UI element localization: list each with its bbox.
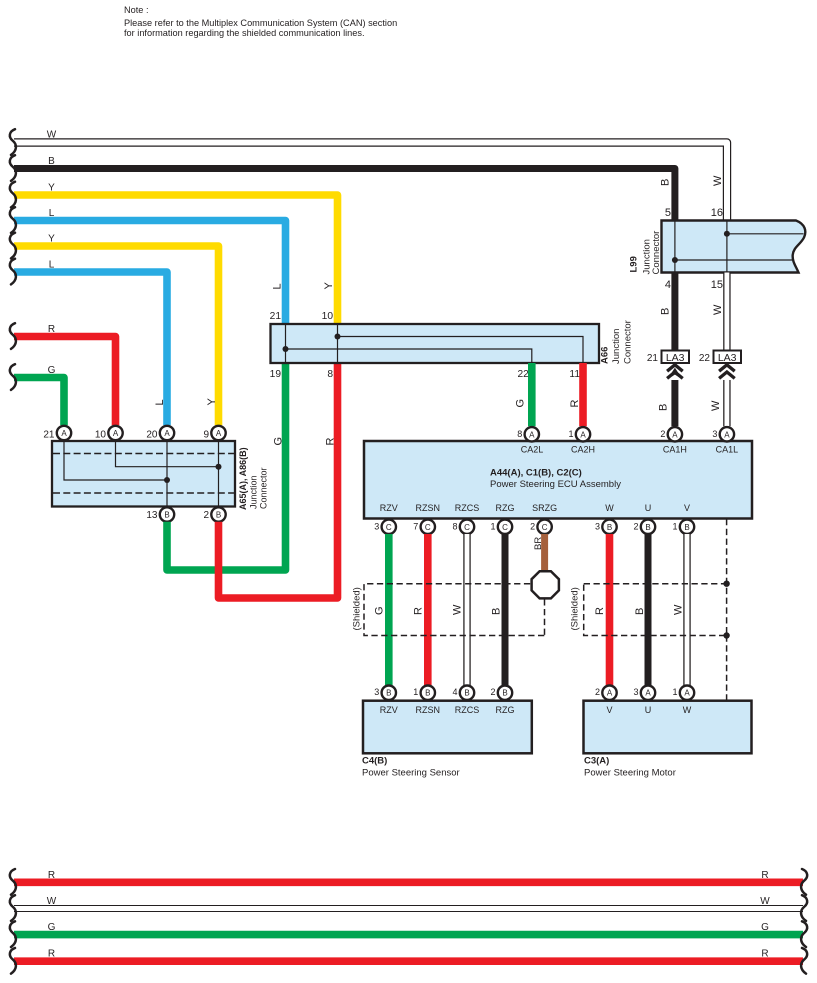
svg-text:L: L (49, 208, 55, 219)
L99 internal line pin5-4 (674, 221, 676, 273)
wire end squiggle B (10, 155, 16, 181)
svg-text:10: 10 (95, 430, 107, 441)
svg-text:3: 3 (374, 521, 379, 531)
svg-text:2: 2 (490, 687, 495, 697)
svg-text:RZV: RZV (380, 705, 398, 715)
A65 junction dot 1 (164, 477, 170, 483)
svg-text:Note :: Note : (124, 5, 149, 15)
bottom wire R 2 (14, 957, 803, 965)
svg-text:B: B (216, 511, 221, 520)
svg-text:3: 3 (374, 687, 379, 697)
svg-text:G: G (515, 399, 527, 408)
svg-text:2: 2 (203, 510, 209, 521)
svg-text:R: R (761, 870, 768, 881)
svg-text:C: C (464, 523, 470, 532)
svg-text:4: 4 (452, 687, 457, 697)
svg-text:CA2H: CA2H (571, 445, 595, 455)
svg-text:(Shielded): (Shielded) (570, 587, 581, 630)
bottom wire R2 squiggle left (10, 948, 16, 974)
svg-text:20: 20 (146, 430, 158, 441)
svg-text:15: 15 (711, 279, 723, 291)
svg-text:LA3: LA3 (666, 352, 685, 364)
svg-text:3: 3 (712, 429, 717, 439)
svg-text:B: B (386, 689, 391, 698)
wire L to A65 pin 20 (14, 272, 167, 425)
svg-text:8: 8 (452, 521, 457, 531)
A66 label rotated (600, 320, 634, 364)
svg-text:A: A (607, 689, 613, 698)
A65 internal dashed bus line top (53, 453, 234, 455)
sensor pin 1(B) (413, 686, 435, 700)
bottom wire R1 squiggle left (10, 869, 16, 895)
wire W from chevron to ECU CA1L (723, 380, 730, 426)
svg-text:3: 3 (595, 521, 600, 531)
svg-text:L: L (272, 283, 284, 289)
svg-text:W: W (710, 400, 722, 411)
junction connector A66 box (271, 324, 600, 363)
svg-text:L: L (49, 260, 55, 271)
bottom wire R1 squiggle right (801, 869, 807, 895)
svg-text:A: A (672, 430, 678, 439)
svg-text:U: U (645, 705, 652, 715)
A65 pin 10(A) (95, 426, 123, 441)
A65 internal line pin20-13 (166, 441, 168, 507)
chevron feed-through B (667, 365, 683, 379)
A65 label rotated (238, 447, 268, 510)
wire R RZSN to sensor (424, 534, 432, 686)
A65 internal link pin10 to pin2 (116, 441, 219, 467)
svg-text:R: R (48, 324, 55, 335)
svg-text:B: B (660, 308, 672, 315)
svg-text:W: W (47, 896, 57, 907)
svg-text:W: W (673, 604, 685, 615)
wire B U-pin to motor (645, 534, 652, 686)
A66 internal link to pin22 (286, 349, 532, 363)
sensor pin 3(B) (374, 686, 396, 700)
sensor pin 2(B) (490, 686, 512, 700)
svg-text:1: 1 (672, 687, 677, 697)
svg-text:C: C (386, 523, 392, 532)
bottom wire R 1 (14, 878, 803, 886)
A66 internal line pin21-19 (285, 324, 287, 363)
svg-text:SRZG: SRZG (532, 503, 557, 513)
svg-text:11: 11 (569, 369, 580, 380)
svg-text:RZV: RZV (380, 503, 398, 513)
svg-text:W: W (683, 705, 692, 715)
svg-text:1: 1 (568, 429, 573, 439)
svg-text:L99: L99 (629, 256, 640, 272)
connector LA3 (22) (699, 351, 741, 365)
A66 internal line pin10-8 (337, 324, 339, 363)
chevron feed-through W (719, 365, 735, 379)
L99 internal bus line 2 (675, 259, 793, 261)
svg-text:8: 8 (517, 429, 522, 439)
wire G to A65 pin 21 (14, 378, 64, 426)
svg-text:21: 21 (647, 353, 659, 364)
svg-text:B: B (425, 689, 430, 698)
bottom wire G squiggle right (801, 921, 807, 947)
A65 junction dot 2 (216, 464, 222, 470)
svg-text:2: 2 (660, 429, 665, 439)
L99 internal bus line 1 (727, 233, 804, 235)
svg-text:RZCS: RZCS (455, 503, 480, 513)
svg-text:LA3: LA3 (718, 352, 737, 364)
svg-text:A66: A66 (600, 347, 611, 364)
motor connector C3(A) box (584, 701, 752, 754)
wire end squiggle R (10, 323, 16, 349)
ECU A44 box (364, 441, 752, 519)
ECU pin 2(B) U (633, 520, 655, 534)
wire R W-pin to motor (606, 534, 614, 686)
ECU pin 8(C) RZCS (452, 520, 474, 534)
wire end squiggle G (10, 364, 16, 390)
bottom wire W squiggle right (801, 895, 807, 921)
svg-text:Junction: Junction (248, 475, 258, 509)
wire end squiggle W (10, 129, 16, 155)
sensor pin 4(B) (452, 686, 474, 700)
svg-text:A44(A), C1(B), C2(C): A44(A), C1(B), C2(C) (490, 468, 582, 479)
A65 pin 13(B) (146, 507, 174, 521)
ECU pin 3(C) RZV (374, 520, 396, 534)
svg-text:B: B (607, 523, 612, 532)
junction connector A65(A),A86(B) box (52, 441, 235, 507)
svg-text:21: 21 (270, 311, 282, 322)
svg-text:Please refer to the Multiplex: Please refer to the Multiplex Communicat… (124, 18, 397, 28)
svg-text:W: W (452, 604, 464, 615)
wire G RZV to sensor (385, 534, 393, 686)
svg-text:B: B (645, 523, 650, 532)
svg-text:G: G (48, 922, 56, 933)
svg-text:Junction: Junction (611, 329, 622, 364)
svg-text:R: R (761, 949, 768, 960)
svg-text:G: G (761, 922, 769, 933)
left shield dashed box (364, 584, 545, 636)
svg-text:(Shielded): (Shielded) (352, 587, 363, 630)
svg-text:13: 13 (146, 510, 158, 521)
svg-text:W: W (712, 175, 724, 186)
svg-text:for information regarding the: for information regarding the shielded c… (124, 28, 365, 38)
svg-text:L: L (154, 399, 166, 405)
wire B RZG to sensor (502, 534, 509, 686)
svg-text:9: 9 (203, 430, 209, 441)
svg-text:22: 22 (699, 353, 711, 364)
svg-text:1: 1 (413, 687, 418, 697)
wire R to A65 pin 10 (14, 337, 116, 426)
ECU pin 3(B) W (595, 520, 617, 534)
svg-text:CA1H: CA1H (663, 445, 687, 455)
svg-text:B: B (164, 511, 169, 520)
wire W RZCS to sensor (463, 534, 470, 686)
svg-text:RZCS: RZCS (455, 705, 480, 715)
svg-text:R: R (594, 607, 606, 615)
svg-text:A: A (724, 430, 730, 439)
svg-text:A: A (113, 429, 119, 438)
ECU pin 1(A) CA2H (568, 427, 590, 441)
svg-text:10: 10 (322, 311, 334, 322)
shield junction dot bottom (723, 632, 729, 638)
svg-text:8: 8 (327, 369, 333, 380)
svg-text:5: 5 (665, 207, 671, 219)
svg-text:V: V (684, 503, 690, 513)
shield drain dashed from ECU (726, 519, 728, 584)
svg-text:1: 1 (672, 521, 677, 531)
svg-text:7: 7 (413, 521, 418, 531)
wire L to A66 pin 21 (14, 221, 286, 325)
svg-text:R: R (325, 438, 337, 446)
svg-text:A: A (645, 689, 651, 698)
wire R from A66 pin11 to ECU CA2H (579, 363, 587, 426)
A65 internal line pin9-2 (218, 441, 220, 507)
svg-text:CA1L: CA1L (716, 445, 739, 455)
ECU pin 3(A) CA1L (712, 427, 734, 441)
ECU pin 1(C) RZG (490, 520, 512, 534)
svg-text:A: A (529, 430, 535, 439)
svg-text:C4(B): C4(B) (362, 756, 387, 767)
svg-text:Y: Y (48, 234, 55, 245)
svg-text:Y: Y (206, 398, 218, 406)
wire end squiggle L2 (10, 259, 16, 285)
ECU pin 1(B) V (672, 520, 694, 534)
note text (124, 5, 397, 38)
wire R from A65 pin2 up to A66 pin8 (219, 363, 338, 598)
svg-text:RZSN: RZSN (416, 705, 441, 715)
A65 pin 2(B) (203, 507, 225, 521)
svg-text:G: G (374, 606, 386, 615)
A66 junction dot 2 (335, 334, 341, 340)
svg-text:16: 16 (711, 207, 723, 219)
svg-text:Y: Y (323, 282, 335, 290)
svg-text:W: W (712, 304, 724, 315)
svg-text:B: B (502, 689, 507, 698)
svg-text:B: B (660, 179, 672, 186)
svg-text:A: A (580, 430, 586, 439)
svg-text:A65(A), A86(B): A65(A), A86(B) (238, 447, 248, 510)
wire Y to A65 pin 9 (14, 246, 219, 425)
svg-text:R: R (48, 949, 55, 960)
svg-text:B: B (48, 156, 55, 167)
shield drain dashed to motor (726, 636, 728, 701)
svg-text:4: 4 (665, 279, 671, 291)
svg-text:C: C (502, 523, 508, 532)
A65 pin 9(A) (203, 426, 225, 441)
svg-text:C: C (425, 523, 431, 532)
L99 internal line pin16-15 (726, 221, 728, 273)
wire B (CAN low, thick black) (14, 169, 675, 221)
wire G from A65 pin13 up to A66 pin19 (167, 363, 286, 570)
ECU title (490, 468, 621, 491)
ECU pin 2(C) SRZG (530, 520, 552, 534)
A66 junction dot 1 (283, 346, 289, 352)
L99 label rotated (629, 231, 663, 275)
wire BR SRZG to shield octagon (541, 534, 548, 571)
svg-text:A: A (216, 429, 222, 438)
svg-text:U: U (645, 503, 652, 513)
wire end squiggle L (10, 207, 16, 233)
sensor connector C4(B) box (363, 701, 532, 754)
shield ground octagon (532, 571, 559, 598)
svg-text:Power Steering Sensor: Power Steering Sensor (362, 768, 460, 779)
ECU pin 2(A) CA1H (660, 427, 682, 441)
svg-text:B: B (491, 608, 503, 615)
A65 pin 20(A) (146, 426, 174, 441)
wire B from L99 pin4 to LA3 (671, 273, 678, 351)
svg-text:G: G (48, 365, 56, 376)
svg-text:BR: BR (533, 537, 544, 550)
wire W from L99 pin15 to LA3 (723, 273, 730, 351)
svg-text:RZSN: RZSN (416, 503, 441, 513)
svg-text:B: B (658, 404, 670, 411)
bottom wire G (14, 931, 803, 939)
svg-text:C: C (542, 523, 548, 532)
svg-text:C3(A): C3(A) (584, 756, 609, 767)
svg-text:V: V (606, 705, 612, 715)
A66 internal link to pin11 (338, 337, 584, 364)
svg-text:B: B (634, 608, 646, 615)
svg-text:R: R (569, 400, 581, 408)
motor pin 3(A) (633, 686, 655, 700)
connector LA3 (21) (647, 351, 689, 365)
svg-text:R: R (48, 870, 55, 881)
svg-text:Connector: Connector (623, 320, 634, 364)
wire Y to A66 pin 10 (14, 195, 338, 324)
svg-text:RZG: RZG (496, 705, 515, 715)
wire end squiggle Y (10, 182, 16, 208)
svg-text:R: R (413, 607, 425, 615)
right shield dashed box (584, 584, 727, 636)
A65 pin 21(A) (43, 426, 71, 441)
bottom wire W (14, 905, 803, 912)
wire G from A66 pin22 to ECU CA2L (528, 363, 536, 426)
ECU pin 7(C) RZSN (413, 520, 435, 534)
wire B from chevron to ECU CA1H (671, 380, 678, 426)
svg-text:W: W (760, 896, 770, 907)
svg-text:1: 1 (490, 521, 495, 531)
junction connector L99 box with torn right edge (662, 221, 806, 273)
bottom wire W squiggle left (10, 895, 16, 921)
svg-text:A: A (164, 429, 170, 438)
svg-text:22: 22 (517, 369, 529, 380)
svg-text:Connector: Connector (651, 231, 662, 275)
motor pin 1(A) (672, 686, 694, 700)
svg-text:B: B (684, 523, 689, 532)
svg-text:A: A (61, 429, 67, 438)
svg-text:19: 19 (270, 369, 282, 380)
bottom wire R2 squiggle right (801, 948, 807, 974)
wire W V-pin to motor (683, 534, 690, 686)
svg-text:Power Steering ECU Assembly: Power Steering ECU Assembly (490, 479, 621, 490)
L99 junction dot 1 (724, 231, 730, 237)
wire end squiggle Y2 (10, 233, 16, 259)
A65 internal dashed bus line bottom (53, 492, 234, 494)
ECU pin 8(A) CA2L (517, 427, 539, 441)
svg-text:B: B (464, 689, 469, 698)
bottom wire G squiggle left (10, 921, 16, 947)
svg-text:CA2L: CA2L (521, 445, 544, 455)
A65 internal link pin21 to pin13 (64, 441, 167, 480)
L99 junction dot 2 (672, 257, 678, 263)
svg-text:2: 2 (633, 521, 638, 531)
shield junction dot top (723, 581, 729, 587)
svg-text:Connector: Connector (258, 467, 268, 509)
svg-text:W: W (605, 503, 614, 513)
svg-text:21: 21 (43, 430, 55, 441)
svg-text:Y: Y (48, 183, 55, 194)
svg-text:2: 2 (595, 687, 600, 697)
svg-text:3: 3 (633, 687, 638, 697)
svg-text:2: 2 (530, 521, 535, 531)
wire W (CAN high, top) (14, 143, 727, 221)
svg-text:Power Steering Motor: Power Steering Motor (584, 768, 676, 779)
svg-text:G: G (273, 437, 285, 446)
svg-text:RZG: RZG (496, 503, 515, 513)
svg-text:A: A (684, 689, 690, 698)
motor pin 2(A) (595, 686, 617, 700)
svg-text:W: W (47, 130, 57, 141)
